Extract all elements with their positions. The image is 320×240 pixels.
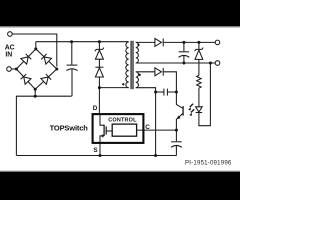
TOPSwitch S pin wire xyxy=(99,143,101,156)
output + terminal circle xyxy=(215,40,220,45)
output + wire to terminal xyxy=(163,41,215,43)
output capacitor C2 bottom lead xyxy=(183,55,185,63)
node C1 rail xyxy=(70,40,73,43)
bias bottom lead and return to ground rail xyxy=(136,88,156,156)
transformer T1 primary winding xyxy=(126,42,129,88)
AC input terminal bottom circle xyxy=(7,67,12,72)
svg-text:C: C xyxy=(145,124,150,131)
resistor R1 zigzag xyxy=(197,75,201,88)
bridge diode D-d (bottom-right arm) xyxy=(41,74,51,84)
node bias cap left xyxy=(154,91,157,94)
wire from top AC terminal right and down to bridge right node xyxy=(12,34,57,67)
transformer secondary winding (output) xyxy=(136,42,139,63)
node DC return xyxy=(34,95,37,98)
bias diode D3 xyxy=(155,68,162,76)
output zener VR2 lead xyxy=(198,42,200,49)
svg-text:IN: IN xyxy=(5,51,12,58)
control bypass capacitor C5 bottom lead xyxy=(175,145,177,155)
wire zener to resistor (crosses return rail) xyxy=(198,59,200,75)
LED return U wire to output return rail xyxy=(199,63,211,126)
clamp blocking diode D1 xyxy=(95,66,103,68)
polarity dot primary xyxy=(122,83,124,85)
wire resistor to opto LED xyxy=(198,88,200,107)
bias wire from D3 down to feedback node xyxy=(163,72,176,92)
output zener VR2 xyxy=(195,48,204,52)
svg-text:S: S xyxy=(93,147,98,154)
output diode D2 xyxy=(155,38,162,46)
bridge bottom node stub xyxy=(34,89,36,96)
secondary top lead to output diode xyxy=(136,41,155,43)
MOSFET channel bar xyxy=(103,125,105,136)
CONTROL block box xyxy=(112,124,136,136)
MOSFET gate bar xyxy=(105,126,107,134)
node bridge bottom xyxy=(34,88,37,91)
opto phototransistor Q1 emitter with arrow xyxy=(176,113,183,130)
wire diode to drain node xyxy=(98,77,100,88)
node bias cap right xyxy=(175,91,178,94)
output capacitor C2 plates xyxy=(179,51,189,53)
svg-text:AC: AC xyxy=(5,44,15,51)
stub bridge top node to HV rail xyxy=(35,42,37,49)
bulk capacitor C1 bottom lead xyxy=(71,69,73,97)
polarity dot secondary xyxy=(137,44,139,46)
bias filter capacitor C4 plates xyxy=(163,89,165,96)
wire from bottom AC terminal to bridge left node xyxy=(11,68,16,70)
bridge rectifier diamond arms xyxy=(16,49,56,89)
node zener top xyxy=(197,41,200,44)
clamp zener VR1 xyxy=(95,48,104,52)
background white page band xyxy=(0,0,240,200)
svg-text:CONTROL: CONTROL xyxy=(108,118,137,124)
TOPSwitch D pin internal lead and MOSFET xyxy=(100,114,104,125)
bottom black bar xyxy=(0,172,240,200)
MOSFET gate wire from CONTROL block xyxy=(106,130,112,132)
TOPSwitch U1 box xyxy=(93,114,144,143)
svg-text:TOPSwitch: TOPSwitch xyxy=(50,123,89,132)
node bridge right xyxy=(55,68,58,71)
primary bottom wire to transformer xyxy=(99,87,128,89)
opto phototransistor Q1 collector xyxy=(176,92,183,108)
bulk capacitor C1 top lead xyxy=(71,42,73,65)
node source rail xyxy=(99,154,102,157)
output return rail xyxy=(136,62,215,64)
node bridge top xyxy=(34,47,37,50)
transformer core lines xyxy=(130,41,132,89)
opto light arrows xyxy=(190,104,193,107)
DC return wire bottom of bridge xyxy=(16,96,71,155)
output - terminal circle xyxy=(215,61,220,66)
HV+ top rail xyxy=(36,41,129,43)
node drain xyxy=(98,86,101,89)
drain wire down to TOPSwitch D pin xyxy=(98,88,100,114)
bottom ground rail xyxy=(16,155,176,157)
CONTROL pin wire from TOPSwitch to feedback node xyxy=(137,129,177,131)
svg-text:D: D xyxy=(93,105,98,112)
node C2 bottom xyxy=(182,62,185,65)
AC input terminal top circle xyxy=(8,32,13,37)
polarity dot bias xyxy=(139,74,141,76)
node bridge left xyxy=(15,68,18,71)
node LED return xyxy=(209,62,212,65)
control bypass capacitor C5 plates xyxy=(171,141,182,143)
control bypass capacitor C5 top lead xyxy=(175,130,177,141)
bridge diode D-c (bottom-left arm) xyxy=(21,74,31,84)
clamp zener VR1 lead from rail xyxy=(98,42,100,50)
node bias return rail xyxy=(154,154,157,157)
optocoupler LED D4 xyxy=(196,107,203,112)
wire zener to blocking diode xyxy=(98,59,100,67)
bridge diode D-b (right-top arm) xyxy=(41,54,51,64)
node clamp rail xyxy=(98,40,101,43)
MOSFET source jog with arrow xyxy=(100,136,104,143)
output capacitor C2 top lead xyxy=(183,42,185,51)
bulk capacitor C1 plates xyxy=(67,64,78,66)
bias top lead to diode D3 xyxy=(136,71,155,73)
top black bar xyxy=(0,0,240,26)
transformer bias winding xyxy=(136,72,139,88)
node control pin xyxy=(175,129,178,132)
svg-text:PI-1951-091996: PI-1951-091996 xyxy=(185,159,232,166)
opto phototransistor Q1 base bar xyxy=(182,106,184,116)
node C2 top xyxy=(182,41,185,44)
bias filter capacitor C4 right wire xyxy=(167,91,176,93)
bias filter capacitor C4 left wire xyxy=(156,91,164,93)
bridge diode D-a (left-top arm) xyxy=(21,54,31,64)
